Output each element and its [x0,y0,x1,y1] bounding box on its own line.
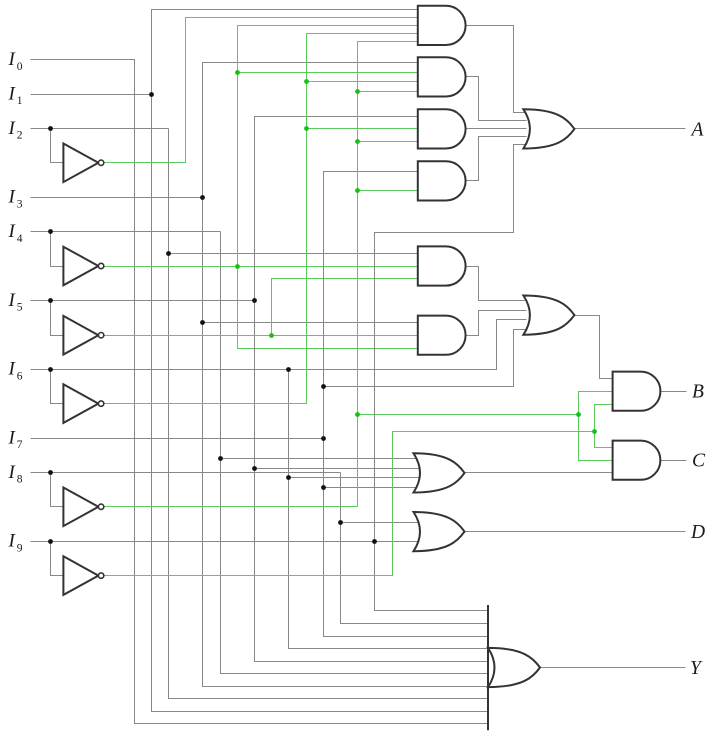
and-gate AND3 (I5·I6'·I8') [418,109,466,148]
svg-text:0: 0 [17,61,23,73]
wire I5' (green) row to AND6 input 2 [104,335,419,337]
wire I8' (green) branch to AND4 input 2 [358,190,419,192]
svg-text:C: C [692,451,706,472]
wire I8' (green) row [104,506,358,508]
wire AND3 output to OR-A input 3 [466,128,527,130]
wire AND1 output to OR-A input 1 [466,26,527,113]
junction I4' to AND2 [235,70,240,75]
junction I8' split [576,412,581,417]
junction I6 to OR-C [286,475,291,480]
svg-text:4: 4 [17,233,23,245]
wire I6 row to OR-B input 3 [31,320,527,370]
and-gate AND-C output C [613,441,661,480]
and-gate AND6 (I3·I5'·I4') [418,316,466,355]
wire output Y [541,667,686,669]
wire I7 branch to OR-B input 4 [324,330,527,387]
wire I9' (green) vertical to AND-B input 3 and AND-C input 1 [595,405,615,448]
junction I9 bus [372,539,377,544]
wire I6' (green) to AND1 input 4 [104,34,419,404]
svg-text:9: 9 [17,542,23,554]
wire I4 down to OR-Y [221,232,489,674]
wire I6 tap to inverter U6 [51,370,64,404]
or-gate OR-A output A [523,109,574,148]
junction I9' split [592,429,597,434]
svg-text:I: I [8,290,17,311]
wire I9' (green) toward AND-B/AND-C [104,432,595,576]
junction I5 inverter tap [48,298,53,303]
and-gate AND2 (I3·I4'·I6'·I8') [418,57,466,96]
wire I4 tap to inverter U4 [51,232,64,267]
svg-text:6: 6 [17,370,23,382]
wire I5 tap to inverter U5 [51,301,64,336]
junction I5' row/branch [269,333,274,338]
wire output C [661,460,687,462]
inverter U8 (I8) [63,488,98,527]
wire I3 down to OR-Y [203,198,489,687]
svg-text:7: 7 [17,439,23,451]
wire I4' (green) branch to AND2 input 2 [238,72,419,74]
wire AND6 output to OR-B input 2 [466,311,527,336]
svg-text:2: 2 [17,130,23,142]
or-gate OR-D output D [414,512,465,551]
and-gate AND-B output B [613,372,661,411]
junction I6' to AND3 [304,126,309,131]
wire I3 up to AND2 input 1 [203,63,419,198]
junction I3 to AND6 [200,320,205,325]
junction I2 to AND5 [166,251,171,256]
wire AND5 output to OR-B input 1 [466,267,527,301]
svg-text:5: 5 [17,302,23,314]
wire AND2 output to OR-A input 2 [466,77,527,121]
wire I6' (green) branch to AND3 input 2 [307,128,419,130]
wire I7 row [31,438,324,440]
wire I6' (green) branch to AND2 input 3 [307,81,419,83]
wire I0 row to OR-Y [31,60,489,724]
junction I6 inverter tap [48,367,53,372]
junction I8' branch [355,412,360,417]
wire I9 tap to inverter U9 [51,542,64,576]
junction I4 inverter tap [48,229,53,234]
junction I4 to OR-C [218,456,223,461]
inverter U2 (I2) [63,144,98,183]
inverter U5 (I5) [63,316,98,355]
junction I5 to OR-C [252,466,257,471]
wire I6 branch to OR-C input 3 [289,477,421,479]
wire I3 row [31,197,203,199]
svg-text:1: 1 [17,95,23,107]
wire I4' (green) row to AND5 input 2 [104,266,419,268]
wire I7 branch to OR-C input 4 [324,487,421,489]
wire I8' (green) vertical to AND-B input 2 and AND-C input 2 [579,392,615,461]
junction I8' to AND2 [355,89,360,94]
wire I1 down to OR-Y [152,95,489,712]
wire output D [465,531,686,533]
wire I5 down to OR-Y [255,301,489,662]
wire I1 up to AND1 input 1 [152,10,419,95]
wire I8 branch to OR-D input 1 [341,522,421,524]
svg-text:I: I [8,359,17,380]
wire I8 row [31,472,341,474]
svg-text:A: A [690,119,704,140]
svg-text:D: D [690,522,705,543]
wire I8' (green) vertical to AND1 input 5 [358,42,419,507]
wire I4 branch to OR-C input 1 [221,458,421,460]
wire I5 row [31,300,255,302]
wire I5 up to AND3 input 1 [255,117,419,301]
wire I4' (green) vertical to AND1 input 3 and AND6 input 3 [238,26,419,349]
inverter U6 (I6) [63,384,98,423]
svg-text:I: I [8,83,17,104]
svg-text:I: I [8,118,17,139]
or-gate OR-Y input bar [487,605,489,730]
inverter U9 (I9) [63,556,98,595]
wire I5' (green) branch up to AND5 input 3 [272,279,419,336]
junction I8 inverter tap [48,470,53,475]
junction I7 bus [321,436,326,441]
junction I6' to AND2 [304,79,309,84]
wire OR-C output to AND-C input 3 [465,472,615,474]
wire I1 row [31,94,152,96]
wire OR-B output to AND-B input 1 [575,316,615,379]
svg-text:I: I [8,221,17,242]
and-gate AND1 (I1·I2'·I4'·I6'·I8') [418,6,466,45]
wire I8' (green) branch toward AND-B/AND-C [358,414,579,416]
junction I1 bus [149,92,154,97]
wire I8' (green) branch to AND3 input 3 [358,141,419,143]
wire I2 branch to AND5 input 1 [169,253,419,255]
wire I2 down to OR-Y [169,129,489,699]
wire I8 tap to inverter U8 [51,473,64,507]
svg-text:I: I [8,427,17,448]
wire I3 branch to AND6 input 1 [203,322,419,324]
junction I2 inverter tap [48,126,53,131]
junction I5 bus [252,298,257,303]
wire output A [575,128,686,130]
and-gate AND4 (I7·I8') [418,161,466,200]
wire I9 up to OR-A input 5 [375,145,527,542]
wire I8 down to OR-Y [341,473,489,624]
inverter U4 (I4) [63,247,98,286]
svg-text:I: I [8,531,17,552]
wire I7 up to AND4 input 1 [324,172,419,439]
wire AND4 output to OR-A input 4 [466,137,527,181]
junction I8' to AND3 [355,139,360,144]
junction I8' to AND4 [355,188,360,193]
or-gate OR-C (I4+I5+I6+I7) [414,453,465,492]
svg-text:3: 3 [17,198,23,210]
or-gate OR-B [523,296,574,335]
wire I4 row [31,231,221,233]
wire I5 branch to OR-C input 2 [255,468,421,470]
svg-text:Y: Y [690,658,703,679]
wire I9 row to OR-D input 2 [31,541,421,543]
junction I7 to OR-B [321,384,326,389]
wire I2 row [31,128,169,130]
wire I6 down to OR-Y [289,370,489,649]
or-gate OR-Y output Y [488,648,540,687]
wire I2' (green) to AND1 input 2 [104,18,419,163]
junction I3 bus [200,195,205,200]
svg-text:I: I [8,462,17,483]
wire I8' (green) branch to AND2 input 4 [358,91,419,93]
junction I7 to OR-C [321,485,326,490]
junction I8 to OR-D [338,520,343,525]
svg-text:I: I [8,49,17,70]
svg-text:B: B [692,382,704,403]
and-gate AND5 (I2·I4'·I5') [418,246,466,285]
wire I7 down to OR-Y [324,439,489,637]
svg-text:I: I [8,187,17,208]
wire I9 down to OR-Y [375,542,489,611]
junction I6 bus [286,367,291,372]
wire I2 tap to inverter U2 [51,129,64,163]
junction I9 inverter tap [48,539,53,544]
wire output B [661,391,687,393]
junction I4' row/vertical [235,264,240,269]
svg-text:8: 8 [17,474,23,486]
